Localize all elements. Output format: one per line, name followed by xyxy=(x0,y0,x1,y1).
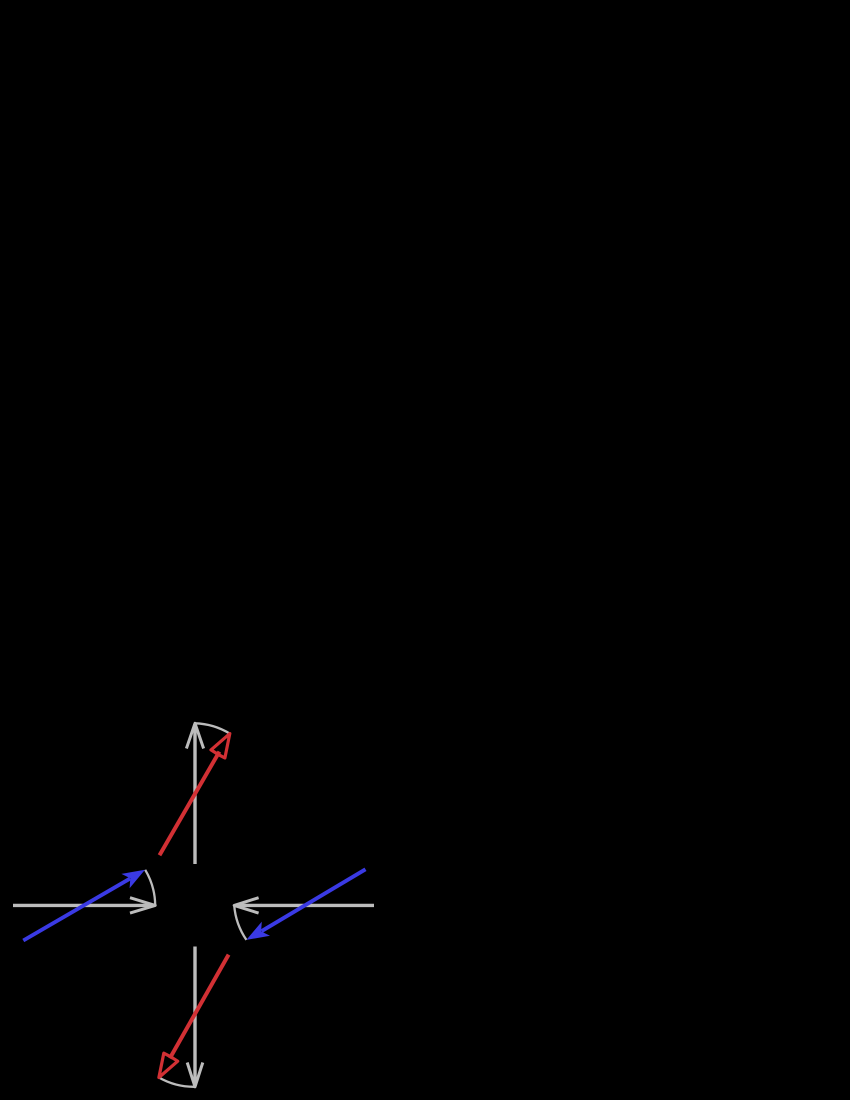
blue vector up-right (rotated left axis) xyxy=(23,870,145,941)
rotation arc bottom (gray) xyxy=(159,1078,195,1087)
rotation arc right (gray) xyxy=(234,905,246,940)
axis arrow left-pointing-in (gray) xyxy=(13,898,155,913)
blue vector down-left (rotated right axis) xyxy=(246,869,365,940)
axis arrow up (gray) xyxy=(186,723,203,864)
red vector up-right (rotated up axis) xyxy=(160,734,230,856)
axis arrow right-pointing-in (gray) xyxy=(234,898,374,913)
axis arrow down (gray) xyxy=(187,947,203,1087)
rotation arc top (gray) xyxy=(195,723,230,733)
rotation arc left (gray) xyxy=(145,870,155,906)
red vector down-left (rotated down axis) xyxy=(159,955,229,1078)
